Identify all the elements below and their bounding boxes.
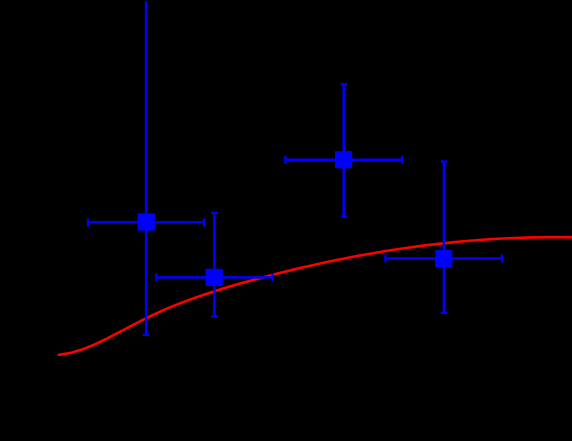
- data point P3 square marker: [335, 151, 352, 168]
- data point P1 y-error bottom cap: [143, 334, 150, 336]
- data point P4 x-error left cap: [384, 255, 386, 263]
- data point P3 x-error bar: [285, 159, 402, 162]
- data point P3 x-error right cap: [401, 156, 403, 164]
- data point P3 y-error bar: [342, 84, 345, 216]
- data point P4 y-error bar: [443, 162, 446, 313]
- data point P4 y-error bottom cap: [441, 312, 447, 314]
- data point P2 x-error right cap: [271, 273, 273, 281]
- data point P1 y-error bar (clipped at top, no cap): [145, 1, 148, 335]
- fit curve (red model line): [59, 237, 571, 355]
- data point P3 x-error left cap: [284, 156, 286, 164]
- data point P2 y-error bottom cap: [211, 315, 218, 317]
- data point P4 x-error bar: [386, 257, 503, 260]
- data point P3 y-error bottom cap: [341, 215, 347, 217]
- data point P4 x-error right cap: [501, 255, 503, 263]
- data point P1 square marker: [138, 213, 155, 230]
- data point P4 square marker: [435, 250, 452, 267]
- data point P1 x-error bar: [88, 221, 204, 224]
- data point P1 x-error left cap: [87, 219, 89, 227]
- data point P2 square marker: [206, 269, 223, 286]
- data point P2 x-error bar: [156, 276, 272, 279]
- data point P2 y-error top cap: [211, 212, 218, 214]
- data point P2 x-error left cap: [155, 273, 157, 281]
- data point P4 y-error top cap: [441, 160, 447, 162]
- data point P3 y-error top cap: [341, 83, 347, 85]
- data point P1 x-error right cap: [203, 219, 205, 227]
- data point P2 y-error bar: [213, 213, 216, 317]
